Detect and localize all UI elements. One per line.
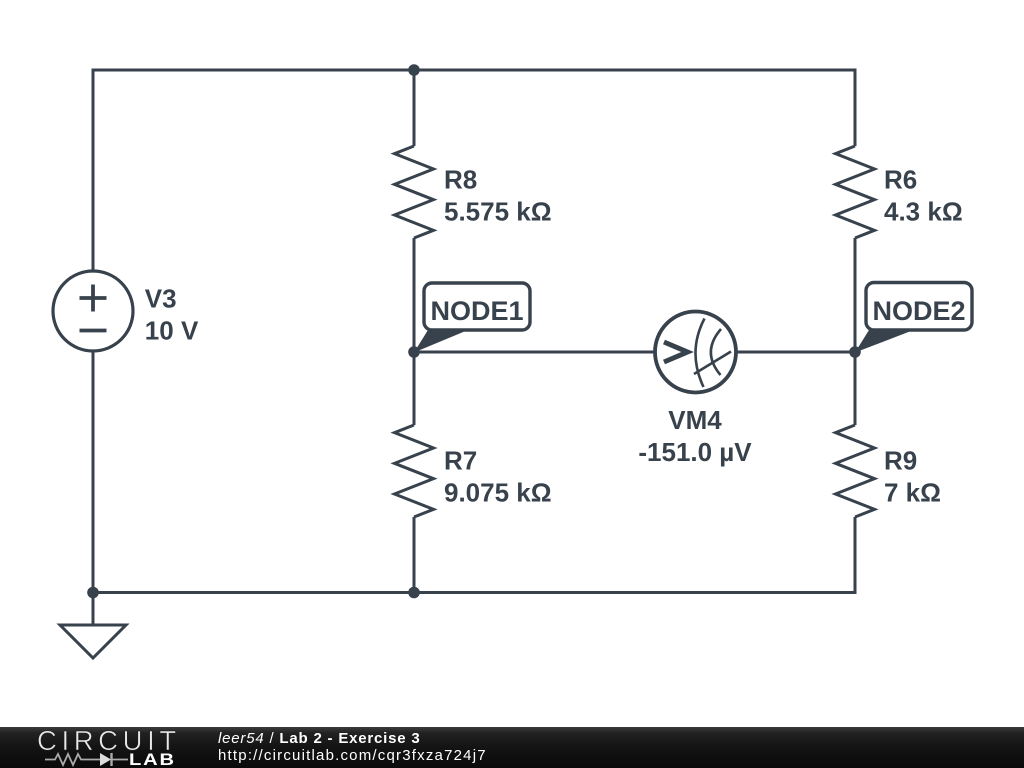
- svg-text:4.3 kΩ: 4.3 kΩ: [884, 197, 963, 227]
- svg-text:R8: R8: [444, 165, 477, 195]
- svg-text:R7: R7: [444, 446, 477, 476]
- svg-text:R6: R6: [884, 165, 917, 195]
- svg-text:NODE2: NODE2: [872, 296, 965, 326]
- svg-text:R9: R9: [884, 446, 917, 476]
- svg-text:10 V: 10 V: [145, 316, 199, 346]
- svg-text:-151.0 µV: -151.0 µV: [638, 437, 752, 467]
- svg-text:NODE1: NODE1: [430, 296, 523, 326]
- svg-text:7 kΩ: 7 kΩ: [884, 478, 941, 508]
- svg-text:V3: V3: [145, 284, 177, 314]
- svg-text:VM4: VM4: [668, 405, 722, 435]
- svg-text:5.575 kΩ: 5.575 kΩ: [444, 197, 552, 227]
- svg-text:9.075 kΩ: 9.075 kΩ: [444, 478, 552, 508]
